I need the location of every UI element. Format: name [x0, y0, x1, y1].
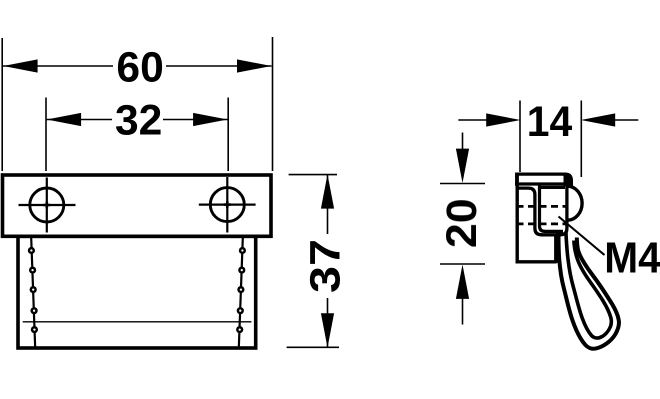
hook wire outer edge: [558, 231, 619, 349]
serration line left: [31, 238, 35, 348]
serration dots left: [28, 247, 38, 333]
clip outline (folded channel): [517, 186, 567, 235]
dim 14 arrow left (pointing right): [486, 113, 520, 126]
dim 60 arrow left: [3, 59, 37, 72]
dim 60 extension line left: [1, 38, 3, 171]
dim 37 extension line bottom: [287, 346, 339, 348]
dim 14 arrow right (pointing left): [581, 113, 615, 126]
dim 20 extension line bottom: [440, 263, 485, 265]
dim 32 line right segment: [163, 119, 228, 121]
dim 14 tail line left: [458, 119, 487, 121]
hole left crosshair horizontal: [19, 204, 76, 206]
side view lip solid right end: [564, 173, 574, 187]
dim 37 arrow down: [321, 313, 334, 347]
svg-text:M4: M4: [604, 234, 660, 282]
part top bar outline: [3, 175, 272, 236]
dim 60 line left segment: [3, 65, 113, 67]
dim 37 line top segment: [327, 174, 329, 234]
svg-text:32: 32: [115, 97, 162, 145]
clip top edge: [541, 186, 565, 189]
side view lip bottom edge: [515, 182, 567, 185]
dim 20 arrow down: [456, 149, 469, 183]
hook wire inner edge: [566, 232, 612, 338]
hole left center mark: [43, 202, 50, 209]
dim 14 tail line right: [614, 119, 638, 121]
clip inner fold edge: [540, 186, 564, 232]
dim 20 line above: [462, 133, 464, 153]
dim 20 arrow up: [456, 265, 469, 299]
hole right crosshair vertical: [226, 177, 228, 233]
part lower body outline: [18, 236, 256, 348]
side view back plate right edge: [554, 236, 557, 263]
side view back plate bottom edge: [516, 260, 557, 263]
dim 60 arrow right: [237, 59, 271, 72]
dim 60 extension line right: [272, 37, 274, 171]
hole right circle: [210, 188, 244, 222]
svg-text:20: 20: [438, 198, 486, 248]
svg-text:14: 14: [527, 98, 573, 146]
dim 32 arrow left: [47, 113, 81, 126]
fold line thin: [23, 321, 252, 323]
dim 37 line bottom segment: [327, 298, 329, 348]
svg-text:60: 60: [116, 43, 163, 91]
dim 32 extension line left: [45, 98, 47, 172]
dim 20 extension line top: [440, 183, 485, 185]
dim 14 extension line right: [580, 101, 582, 178]
hole right center mark: [224, 201, 231, 208]
serration dots right: [236, 247, 246, 333]
hole left crosshair vertical: [46, 178, 48, 233]
dim 20 line below: [462, 296, 464, 325]
dim 32 extension line right: [227, 98, 229, 172]
hidden thread line lower (dashed): [517, 222, 567, 225]
hole left circle: [30, 188, 64, 222]
side view back plate left edge: [516, 173, 519, 264]
svg-text:37: 37: [302, 239, 350, 293]
dim 32 line left segment: [47, 119, 113, 121]
hole right crosshair horizontal: [199, 204, 256, 206]
clip spring bulge: [567, 186, 582, 220]
hidden thread line upper (dashed): [517, 205, 567, 208]
serration line right: [239, 238, 243, 348]
leader line M4: [559, 217, 605, 256]
dim 14 extension line left: [519, 101, 521, 173]
side view lip outline: [517, 174, 572, 186]
dim 37 arrow up: [321, 174, 334, 208]
dim 32 arrow right: [193, 113, 227, 126]
dim 37 extension line top: [289, 174, 337, 176]
dim 60 line right segment: [166, 65, 272, 67]
